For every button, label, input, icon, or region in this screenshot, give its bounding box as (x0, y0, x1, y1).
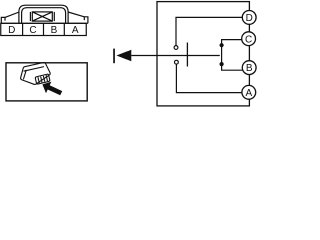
terminal circle C (242, 32, 256, 46)
icon pin block outer (35, 74, 50, 84)
pin row separator D|C (22, 23, 24, 35)
harness arrow terminator bar (113, 49, 115, 64)
pin row separator C|B (43, 23, 45, 35)
harness arrow head (116, 50, 131, 61)
housing right tab (84, 17, 88, 24)
wire: lower contact to pin A (176, 64, 242, 92)
lock tab crossed box (32, 12, 52, 21)
upper fixed contact (174, 46, 178, 50)
svg-text:C: C (245, 34, 252, 45)
terminal circle D (242, 11, 256, 25)
connector housing bottom line (1, 22, 88, 24)
svg-text:B: B (51, 25, 58, 36)
switch movable blade (186, 43, 188, 67)
housing raised center inner outline (22, 8, 66, 24)
svg-text:A: A (72, 25, 79, 36)
terminal circle B (242, 61, 256, 75)
icon pin block ribs (38, 77, 39, 83)
wire: bus joining pins C and B (222, 40, 243, 71)
housing raised center outer outline (19, 5, 68, 23)
wire: common feed from arrow to switch (131, 55, 220, 57)
icon frame box (6, 63, 87, 101)
svg-text:A: A (245, 88, 252, 99)
pin row separator B|A (63, 23, 65, 35)
terminal circle A (242, 85, 256, 99)
icon arrow (42, 82, 62, 96)
connector pin row outline (1, 23, 87, 35)
svg-text:C: C (29, 25, 36, 36)
icon body top face inner line (24, 67, 44, 72)
lock tab left flank line (29, 12, 31, 21)
pin labels D C B A (8, 25, 79, 36)
lock tab right flank line (53, 12, 55, 21)
svg-text:B: B (246, 63, 253, 74)
lower fixed contact (175, 60, 179, 64)
svg-text:D: D (8, 25, 15, 36)
junction dot lower (220, 62, 224, 66)
switch component box (157, 2, 249, 106)
wire: pin D to upper contact (176, 17, 242, 45)
junction dot upper (220, 43, 224, 47)
icon body left face inner line (23, 70, 26, 80)
connector 3d icon (21, 63, 51, 85)
svg-text:D: D (246, 13, 253, 24)
housing left tab (1, 17, 5, 23)
housing right shoulder diagonal (68, 12, 84, 17)
housing left shoulder diagonal (5, 12, 19, 17)
icon body outer (21, 63, 51, 85)
